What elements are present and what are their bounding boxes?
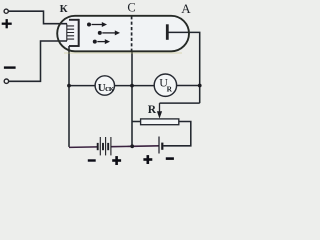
svg-text:R: R	[167, 85, 173, 94]
svg-text:К: К	[60, 3, 68, 15]
svg-text:ск: ск	[105, 83, 114, 93]
svg-text:С: С	[127, 0, 135, 14]
svg-text:R: R	[148, 104, 157, 116]
svg-text:А: А	[181, 1, 191, 16]
